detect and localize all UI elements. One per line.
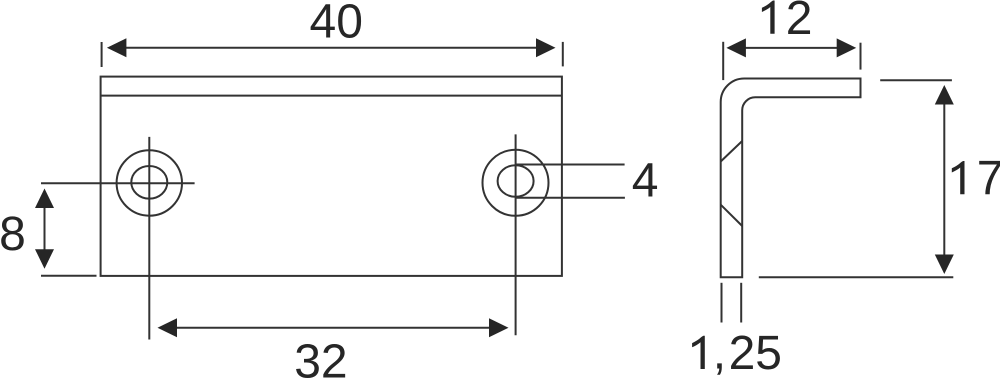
bend edge line on front view	[101, 95, 562, 97]
dimension 12 left extension tick	[722, 42, 724, 80]
dimension 17 line	[943, 88, 945, 271]
hole H1 outer circle	[117, 150, 182, 215]
dimension 17 bottom arrowhead	[935, 255, 954, 275]
front view plate outline	[101, 77, 562, 276]
svg-text:2: 2	[786, 0, 813, 45]
hole H1 inner circle	[131, 166, 167, 199]
hole diameter 4 top leader line	[515, 164, 624, 166]
hole H2 inner circle	[498, 165, 534, 197]
svg-text:32: 32	[294, 336, 347, 379]
dimension 1,25 text	[692, 336, 705, 369]
dimension 40 right arrowhead	[536, 38, 556, 57]
dimension 8 line	[44, 193, 46, 264]
dimension 12 left arrowhead	[726, 38, 746, 57]
side view lower diagonal mark	[721, 205, 743, 226]
dimension 32 left arrowhead	[158, 318, 178, 337]
dimension 40 left arrowhead	[107, 38, 127, 57]
svg-text:25: 25	[729, 327, 782, 379]
dimension 32 line	[162, 327, 504, 329]
dimension 8 top arrowhead	[35, 189, 54, 209]
dimension 32 right arrowhead	[489, 318, 509, 337]
dimension 8 bottom extension line	[41, 275, 97, 277]
svg-text:,: ,	[713, 327, 726, 379]
dimension 12 line	[730, 47, 852, 49]
dimension 12 right arrowhead	[837, 38, 857, 57]
side view upper diagonal mark	[721, 141, 743, 162]
dimension 1,25 right extension line	[740, 283, 742, 323]
dimension 40 right extension tick	[562, 42, 564, 67]
dimension 8 bottom arrowhead	[35, 249, 54, 269]
dimension 12 text	[762, 1, 775, 34]
dimension 17 text	[952, 161, 965, 194]
svg-text:4: 4	[632, 155, 659, 208]
svg-text:40: 40	[310, 0, 363, 48]
dimension 17 top extension line	[880, 79, 952, 81]
dimension 17 top arrowhead	[935, 85, 954, 105]
dimension 1,25 left extension line	[721, 283, 723, 323]
dimension 40 line	[112, 47, 551, 49]
hole H2 outer circle	[483, 150, 549, 216]
dimension 17 bottom extension line	[759, 276, 954, 278]
hole H1 horizontal centerline	[41, 182, 195, 184]
hole diameter 4 bottom leader line	[515, 197, 625, 199]
svg-text:7: 7	[977, 152, 1000, 205]
dimension 12 right extension tick	[860, 43, 862, 70]
dimension 40 left extension tick	[101, 42, 103, 67]
hole H2 vertical centerline	[515, 134, 517, 335]
side view L-profile outline	[721, 79, 861, 278]
svg-text:8: 8	[0, 208, 26, 261]
hole H1 vertical centerline	[148, 137, 150, 340]
